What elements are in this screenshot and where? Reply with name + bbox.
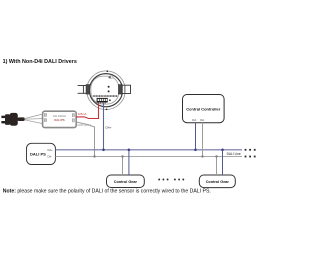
DA+ bus line <box>55 149 242 151</box>
svg-text:125mA: 125mA <box>78 112 87 116</box>
junction controller DA- <box>201 155 203 157</box>
junction controller DA+ <box>194 149 197 152</box>
sensor body <box>91 76 119 104</box>
plug wire 3 <box>24 120 42 124</box>
ellipsis more control gears <box>158 179 184 181</box>
junction sensor DA+ <box>102 149 105 152</box>
mains plug <box>1 113 24 126</box>
junction gear1 DA- <box>121 155 123 157</box>
sensor top slot <box>108 76 113 78</box>
svg-text:DA: DA <box>192 118 196 122</box>
svg-text:DA+: DA+ <box>48 148 54 152</box>
wire controller DA to DA- bus <box>202 123 204 157</box>
svg-text:DA: DA <box>200 118 204 122</box>
sensor rim notch top <box>107 70 109 72</box>
svg-text:Control Gear: Control Gear <box>206 180 230 184</box>
sensor rim notch bottom <box>106 109 108 111</box>
sensor hole 2 <box>108 90 110 92</box>
sensor outer circle <box>87 71 126 110</box>
bus continuation dots DA- <box>245 156 256 158</box>
svg-text:Control Gear: Control Gear <box>114 180 138 184</box>
wire red L+ from PSU to sensor <box>76 103 99 119</box>
junction gear1 DA+ <box>128 149 131 152</box>
wire control gear 2 to DA+ bus <box>222 150 224 175</box>
sensor connector J1 <box>97 98 108 104</box>
svg-text:Central Controller: Central Controller <box>186 106 220 111</box>
plug wire 1 <box>24 114 42 119</box>
svg-text:DALI PS: DALI PS <box>54 118 65 122</box>
power supply U1 <box>43 111 77 127</box>
wire controller DA to DA+ bus <box>195 123 197 150</box>
DA- bus line <box>55 156 242 158</box>
wire blue DA+ from sensor to bus <box>103 103 105 150</box>
sensor slot dot <box>109 76 111 78</box>
wire control gear 1 to DA- bus <box>122 157 124 176</box>
DALI PS box <box>27 143 56 164</box>
wire gray GND from PSU to DA- bus <box>76 122 95 157</box>
left mounting clip <box>78 85 90 95</box>
control gear 1 <box>107 175 145 188</box>
wire control gear 1 to DA+ bus <box>128 150 130 175</box>
wire control gear 2 to DA- bus <box>216 157 218 176</box>
central controller <box>183 95 225 123</box>
svg-text:DA+: DA+ <box>106 126 112 130</box>
svg-text:DALI PS: DALI PS <box>30 152 46 157</box>
sensor inner circle <box>89 74 122 107</box>
sensor hole 3 <box>109 99 111 101</box>
junction gear2 DA+ <box>221 149 224 152</box>
svg-text:100-240Vac: 100-240Vac <box>53 115 67 118</box>
sensor pin label row <box>93 95 117 97</box>
plug wire 2 <box>25 118 43 121</box>
control gear 2 <box>199 175 235 188</box>
junction gear2 DA- <box>215 155 217 157</box>
svg-text:DA-: DA- <box>48 155 53 159</box>
junction PSU GND <box>93 155 95 157</box>
svg-text:Note: please make sure the pol: Note: please make sure the polarity of D… <box>3 189 211 195</box>
svg-text:DALI Line: DALI Line <box>227 152 241 156</box>
svg-text:1) With Non-D4i DALI Drivers: 1) With Non-D4i DALI Drivers <box>3 59 77 65</box>
sensor hole 1 <box>108 86 110 88</box>
right mounting clip <box>118 85 130 95</box>
bus continuation dots DA+ <box>245 149 256 151</box>
